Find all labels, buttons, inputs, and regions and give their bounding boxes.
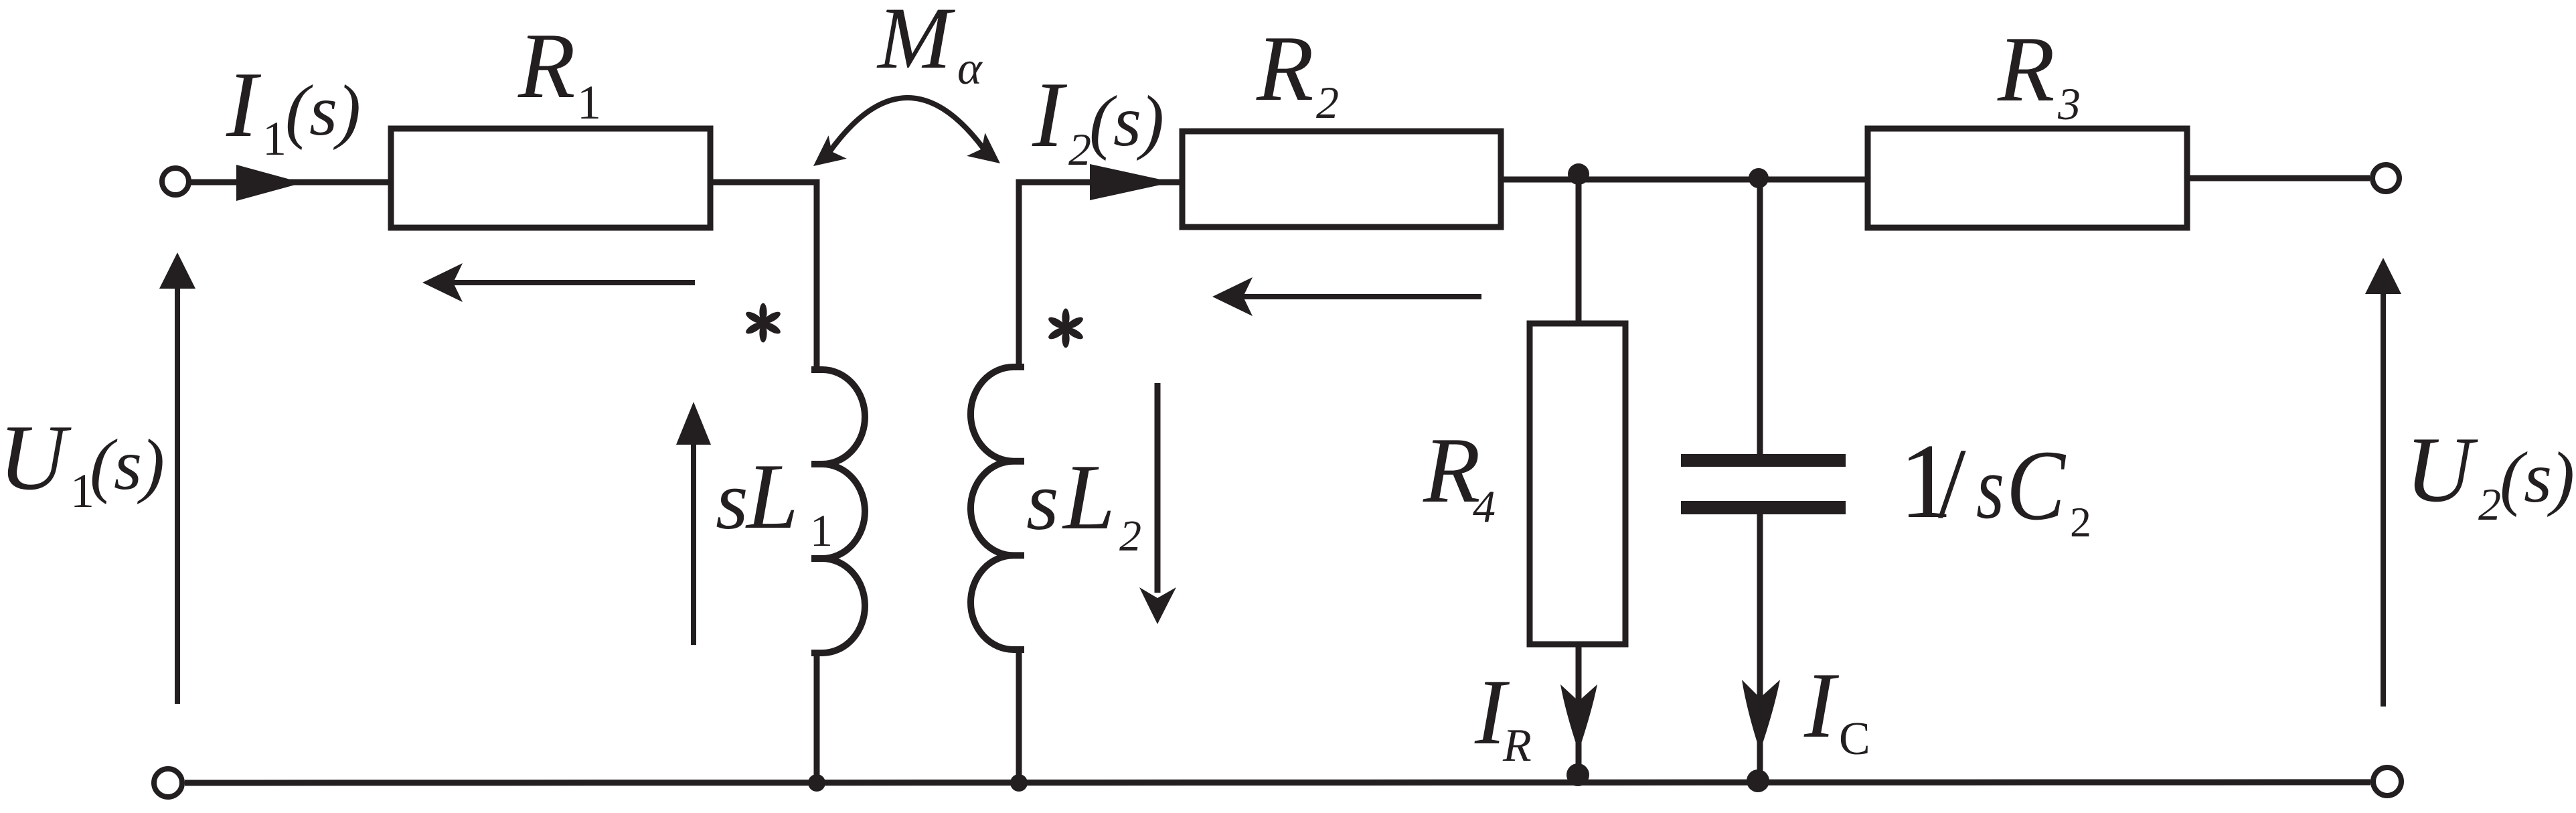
L2 bottom junction dot (1010, 774, 1028, 792)
U2 voltage arrow shaft (2381, 289, 2386, 707)
wire: L2 top corner to R2 with I2 path (1019, 182, 1182, 367)
svg-text:R: R (1423, 419, 1481, 522)
svg-text:4: 4 (1473, 481, 1496, 532)
sL2 arrowhead (1139, 587, 1176, 624)
svg-text:s: s (309, 71, 337, 151)
svg-text:2: 2 (1119, 512, 1141, 561)
svg-text:1: 1 (810, 505, 833, 556)
resistor R1 (391, 129, 710, 228)
arrowhead under R1 (422, 263, 463, 302)
IR arrowhead (1560, 684, 1597, 751)
svg-text:α: α (957, 43, 983, 94)
svg-text:I: I (1803, 654, 1840, 757)
wire: L1 stem lower to bottom rail (814, 653, 820, 783)
svg-text:s: s (114, 425, 142, 505)
L1 polarity dot mark * (759, 303, 767, 322)
svg-text:U: U (2405, 418, 2478, 522)
svg-text:s: s (1026, 455, 1059, 548)
node B top junction dot (1749, 168, 1769, 188)
mutual coupling arc M_alpha (829, 98, 984, 152)
sL1 current arrow shaft (691, 441, 696, 645)
svg-text:1: 1 (577, 76, 601, 129)
svg-text:R: R (1256, 17, 1314, 121)
resistor R2 (1182, 131, 1501, 227)
M_alpha arc right arrowhead (967, 133, 1000, 163)
sL2 current arrow shaft (1155, 383, 1161, 593)
node A bottom junction dot (1566, 763, 1589, 786)
svg-text:R: R (1502, 720, 1532, 771)
svg-text:s: s (716, 455, 748, 547)
svg-text:s: s (1113, 82, 1141, 161)
svg-text:2: 2 (2478, 479, 2501, 530)
output terminal bottom-right (2373, 767, 2401, 796)
capacitor C2 bottom plate (1681, 501, 1846, 514)
arrowhead under R2 (1212, 277, 1253, 316)
arrow shaft under R1 (447, 280, 695, 285)
wire: R1 to inductor L1 top corner and L1 stem upper (710, 182, 817, 370)
capacitor C2 top plate (1681, 454, 1846, 467)
IC arrowhead (1742, 680, 1780, 751)
inductor L2 coil (971, 367, 1024, 650)
U1 voltage arrow shaft (175, 285, 180, 704)
I2 current arrowhead (1090, 164, 1173, 200)
resistor R3 (1868, 129, 2187, 228)
output terminal top-right (2372, 165, 2399, 192)
svg-text:3: 3 (2057, 78, 2081, 129)
arrow shaft under R2 (1238, 294, 1481, 299)
sL1 arrowhead (676, 402, 711, 445)
svg-text:L: L (745, 445, 799, 548)
svg-text:s: s (1976, 438, 2004, 538)
input terminal top-left (162, 168, 189, 195)
svg-text:): ) (333, 71, 361, 151)
wire: R3 to output top terminal (2187, 175, 2370, 181)
svg-text:M: M (876, 0, 956, 87)
M_alpha arc left arrowhead (813, 135, 847, 166)
svg-text:2: 2 (1316, 77, 1339, 128)
svg-text:I: I (226, 53, 262, 157)
svg-text:C: C (1839, 713, 1870, 765)
svg-text:I: I (1032, 63, 1068, 167)
svg-text:): ) (137, 425, 165, 505)
svg-text:U: U (0, 406, 72, 510)
input terminal bottom-left (154, 769, 182, 797)
wire: R4 branch stem (1576, 179, 1582, 773)
wire: input top terminal to R1 (190, 179, 391, 186)
U1 arrowhead (159, 252, 195, 289)
svg-text:R: R (517, 14, 576, 118)
wire: capacitor C2 branch stem (1757, 179, 1763, 780)
node B bottom junction dot (1747, 769, 1769, 792)
svg-text:2: 2 (2070, 498, 2091, 546)
wire: bottom rail (185, 782, 2370, 783)
svg-text:2: 2 (1068, 124, 1091, 175)
resistor R4 (1530, 323, 1625, 644)
node A top junction dot (1568, 163, 1589, 185)
wire: L2 stem lower to bottom rail (1016, 650, 1022, 783)
inductor L1 coil (811, 370, 865, 653)
wire: R2 to node A to node B to R3 (1501, 177, 1868, 183)
L1 bottom junction dot (808, 774, 825, 792)
svg-text:L: L (1062, 445, 1115, 549)
svg-text:C: C (2006, 430, 2067, 541)
U2 arrowhead (2365, 258, 2401, 294)
svg-text:): ) (2547, 438, 2575, 518)
svg-text:): ) (1136, 82, 1164, 161)
L2 polarity dot mark * (1062, 309, 1069, 327)
svg-text:s: s (2524, 438, 2552, 518)
svg-text:R: R (1997, 17, 2055, 121)
I1 current arrowhead (236, 165, 303, 201)
svg-text:1: 1 (262, 112, 287, 165)
svg-text:/: / (1938, 428, 1966, 539)
